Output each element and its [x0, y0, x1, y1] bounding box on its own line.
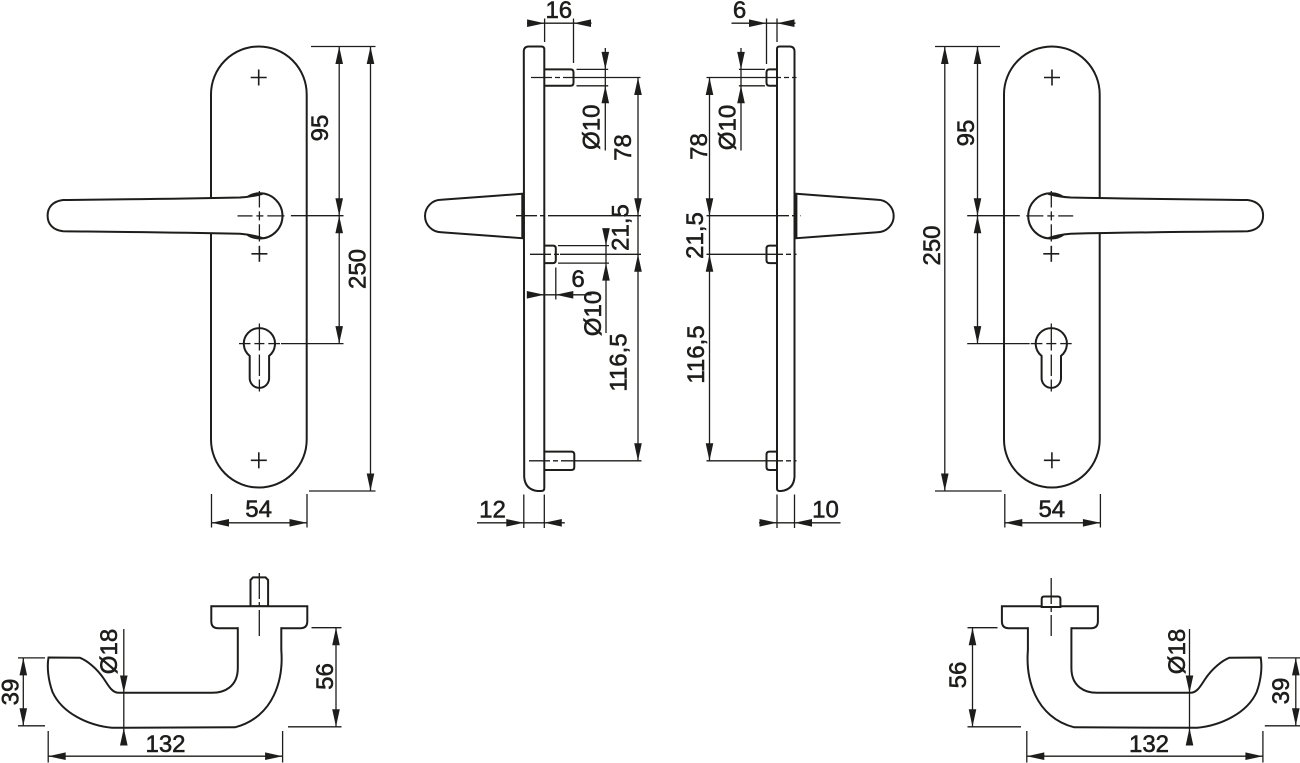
svg-text:95: 95 — [307, 115, 334, 142]
svg-text:132: 132 — [1129, 731, 1169, 758]
svg-text:Ø10: Ø10 — [715, 105, 742, 150]
svg-text:116,5: 116,5 — [683, 325, 710, 383]
svg-text:250: 250 — [345, 249, 372, 289]
svg-text:78: 78 — [610, 134, 637, 161]
svg-text:116,5: 116,5 — [606, 333, 633, 391]
svg-text:95: 95 — [953, 120, 980, 147]
svg-text:54: 54 — [1038, 496, 1065, 523]
svg-text:6: 6 — [733, 0, 746, 24]
svg-text:12: 12 — [479, 497, 506, 524]
svg-text:39: 39 — [0, 679, 25, 706]
svg-text:39: 39 — [1268, 678, 1295, 705]
svg-text:Ø18: Ø18 — [1164, 629, 1191, 674]
svg-text:78: 78 — [686, 133, 713, 160]
svg-text:Ø10: Ø10 — [579, 105, 606, 150]
svg-text:56: 56 — [312, 663, 339, 690]
svg-text:54: 54 — [245, 496, 272, 523]
svg-text:10: 10 — [812, 497, 839, 524]
svg-text:21,5: 21,5 — [682, 212, 709, 259]
svg-text:Ø18: Ø18 — [96, 629, 123, 674]
svg-text:250: 250 — [919, 225, 946, 265]
svg-text:132: 132 — [145, 731, 185, 758]
svg-text:16: 16 — [545, 0, 572, 24]
svg-text:56: 56 — [945, 662, 972, 689]
svg-text:Ø10: Ø10 — [580, 291, 607, 336]
svg-text:6: 6 — [571, 266, 584, 293]
svg-text:21,5: 21,5 — [608, 204, 635, 251]
